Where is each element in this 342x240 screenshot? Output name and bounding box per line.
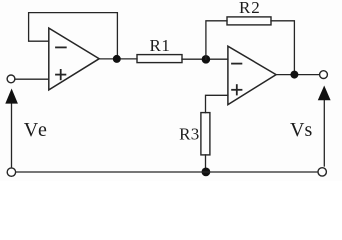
wire junction up to R2 left — [206, 21, 227, 60]
svg-text:R2: R2 — [239, 0, 261, 17]
input terminal (Ve top) — [7, 75, 15, 83]
svg-text:R3: R3 — [179, 124, 199, 143]
arrow Ve — [5, 89, 18, 167]
wire R2 right down to U2 output node — [271, 21, 294, 75]
op-amp U1 — [49, 28, 99, 90]
wire U2 output to output terminal — [276, 74, 319, 76]
resistor R2 — [227, 0, 271, 25]
node U1 output junction — [113, 55, 121, 63]
resistor R3 — [179, 113, 210, 155]
terminal bottom left — [7, 168, 15, 176]
terminal bottom right — [318, 168, 326, 176]
wire bottom rail — [16, 171, 318, 173]
wire R1 to U2 inverting input — [182, 58, 228, 60]
svg-text:R1: R1 — [149, 36, 170, 55]
svg-text:Ve: Ve — [24, 119, 49, 141]
wire U1 feedback loop (output to inverting input) — [29, 13, 118, 58]
node U2 inverting input junction — [202, 55, 211, 64]
output terminal (Vs top) — [320, 71, 328, 79]
wire R3 bottom to ground rail — [205, 155, 207, 172]
op-amp U2 — [228, 46, 276, 104]
wire U2 non-inverting input to R3 top — [206, 95, 228, 112]
svg-text:Vs: Vs — [290, 119, 312, 141]
arrow Vs — [318, 86, 331, 167]
wire input terminal to U1 non-inverting input — [15, 78, 49, 80]
node U2 output junction — [290, 71, 298, 79]
resistor R1 — [137, 36, 182, 63]
wire U1 output to R1 — [99, 58, 137, 60]
node ground rail junction — [202, 168, 211, 177]
